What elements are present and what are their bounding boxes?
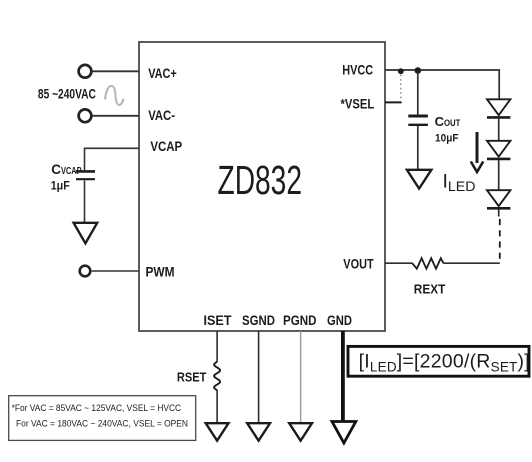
svg-text:VCAP: VCAP: [150, 138, 182, 154]
current arrow I_LED: [476, 132, 479, 163]
AC input terminal circle top: [79, 65, 92, 78]
AC input terminal circle bottom: [79, 109, 92, 122]
wire COUT to ground: [417, 126, 419, 169]
ground symbol for COUT: [407, 170, 432, 189]
ground symbol for ISET: [206, 423, 229, 441]
PWM input terminal circle: [80, 266, 91, 277]
svg-text:ZD832: ZD832: [218, 157, 303, 203]
wire VAC+ terminal to pin: [93, 70, 139, 72]
svg-text:VAC-: VAC-: [148, 107, 175, 123]
dotted wire VSEL to HVCC: [400, 75, 402, 101]
svg-text:VOUT: VOUT: [343, 255, 374, 271]
svg-text:*For VAC = 85VAC ~ 125VAC, VSE: *For VAC = 85VAC ~ 125VAC, VSEL = HVCC: [12, 403, 182, 413]
wire VCAP pin to capacitor CVCAP: [85, 148, 140, 170]
IC U1 ZD832 body: [139, 42, 385, 331]
wire ISET pin down: [216, 331, 218, 362]
LED D1: [487, 99, 510, 115]
junction dot node HVCC 1: [398, 68, 404, 74]
ground symbol for SGND: [247, 423, 270, 441]
LED D2: [487, 141, 510, 157]
svg-text:HVCC: HVCC: [342, 61, 373, 77]
wire PGND pin to ground: [300, 331, 302, 423]
wire REXT to dashed node: [443, 262, 500, 264]
capacitor C_OUT plates: [408, 115, 428, 118]
svg-text:SGND: SGND: [242, 312, 275, 328]
note box: [9, 396, 196, 441]
wire VSEL stub: [385, 101, 402, 103]
formula box I_LED = 2200/RSET: [348, 346, 529, 376]
wire HVCC to capacitor COUT: [417, 72, 419, 115]
LED D3: [487, 190, 510, 206]
AC sine symbol: [105, 86, 124, 105]
svg-text:85 ~240VAC: 85 ~240VAC: [38, 87, 96, 102]
resistor RSET: [214, 362, 220, 390]
wire below D3: [498, 209, 500, 216]
wire VAC- terminal to pin: [93, 115, 139, 117]
svg-text:VAC+: VAC+: [148, 65, 177, 81]
junction dot node HVCC 2: [415, 67, 422, 74]
svg-text:REXT: REXT: [414, 281, 446, 296]
svg-text:GND: GND: [327, 312, 352, 328]
svg-text:RSET: RSET: [177, 369, 207, 384]
svg-text:ISET: ISET: [204, 312, 232, 328]
wire SGND pin to ground: [258, 331, 260, 423]
ground symbol for CVCAP: [74, 223, 98, 244]
wire VOUT pin to resistor REXT: [385, 262, 413, 264]
svg-text:PGND: PGND: [283, 312, 317, 328]
wire D2 to D3: [498, 160, 500, 190]
svg-text:*VSEL: *VSEL: [341, 95, 375, 111]
svg-text:For VAC = 180VAC ~ 240VAC, VSE: For VAC = 180VAC ~ 240VAC, VSEL = OPEN: [16, 419, 188, 429]
svg-text:10μF: 10μF: [435, 132, 459, 144]
svg-text:1μF: 1μF: [51, 179, 70, 193]
ground symbol for GND: [332, 422, 356, 444]
wire PWM terminal to pin: [92, 270, 139, 272]
resistor REXT: [412, 258, 443, 269]
svg-text:PWM: PWM: [146, 263, 175, 279]
wire CVCAP to ground: [84, 180, 86, 222]
thick wire GND pin to ground: [341, 331, 345, 421]
capacitor C_VCAP plates: [76, 170, 95, 173]
wire HVCC net: [385, 70, 499, 99]
ground symbol for PGND: [289, 423, 312, 441]
wire RSET to ground: [216, 390, 218, 423]
dashed wire LED string to REXT: [499, 219, 501, 263]
wire D1 to D2: [498, 119, 500, 141]
